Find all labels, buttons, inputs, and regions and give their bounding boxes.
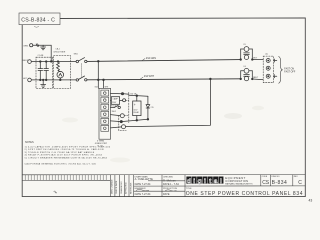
svg-text:2) DPST SWITCH CARLING #2GK54-: 2) DPST SWITCH CARLING #2GK54-73 TOGGLE … — [25, 148, 104, 151]
wire TB1-4 to contact — [111, 115, 121, 116]
svg-text:#14 WHT: #14 WHT — [144, 75, 155, 78]
J1 pin 2 — [266, 66, 270, 70]
junction bottom rail tap — [103, 79, 105, 81]
svg-text:SW1: SW1 — [74, 54, 78, 56]
svg-text:ONE STEP POWER CONTROL PANEL 8: ONE STEP POWER CONTROL PANEL 834 — [186, 191, 303, 197]
switch SW1 mechanical link — [81, 64, 83, 77]
terminal HOT — [28, 78, 32, 82]
svg-text:CODE: CODE — [262, 176, 268, 178]
svg-text:F5: F5 — [244, 44, 246, 46]
svg-text:a: a — [214, 178, 218, 185]
connector contact b — [120, 114, 124, 118]
TB1 pin 4 — [101, 111, 109, 117]
svg-text:CHANGE NO: CHANGE NO — [120, 181, 123, 194]
wire dashed stub b — [124, 115, 128, 117]
svg-text:i: i — [193, 178, 195, 185]
wire #14 GRN top run — [87, 60, 241, 62]
wire NEUT return drop — [126, 79, 211, 127]
wire TB1-5 to node — [111, 120, 120, 123]
junction panel node — [121, 93, 123, 95]
terminal NEUT — [28, 60, 32, 64]
brace FAST ON FAST OFF — [279, 57, 283, 84]
J1 mating contact 1 — [274, 59, 277, 62]
svg-text:PRODUCTION: PRODUCTION — [163, 188, 177, 190]
wire GRN stub — [33, 44, 52, 62]
svg-text:DWG NO: DWG NO — [272, 176, 281, 178]
svg-text:SW-2: SW-2 — [112, 111, 116, 113]
label K1 plus — [134, 103, 136, 107]
wire TB1-6 to contact — [111, 127, 122, 128]
svg-text:NEUT: NEUT — [253, 77, 259, 79]
switch SW2 — [111, 105, 121, 108]
junction relay return — [120, 121, 122, 123]
svg-text:+: + — [134, 103, 136, 107]
svg-text:REVISIONS: REVISIONS — [130, 182, 132, 194]
relay K1 — [133, 101, 141, 116]
svg-text:4) RELAY P+B KRP11AG 115V 6: 4) RELAY P+B KRP11AG 115V 60CY PURCH SPE… — [25, 154, 103, 157]
svg-text:A. OUELLETTE: A. OUELLETTE — [135, 177, 154, 181]
svg-text:CS: CS — [262, 180, 270, 186]
label #14 GRN — [143, 59, 146, 61]
junction top rail tap — [97, 60, 99, 62]
svg-text:#14 GRN: #14 GRN — [146, 57, 156, 60]
svg-text:CIRCUIT BKR: CIRCUIT BKR — [53, 51, 66, 53]
junction drop crossing — [98, 79, 100, 81]
svg-text:C: C — [298, 180, 302, 186]
wire HOT to J1 — [252, 59, 263, 61]
label FAST ON FAST OFF — [284, 67, 296, 73]
svg-text:MAYNARD, MASSACHUSETTS: MAYNARD, MASSACHUSETTS — [225, 183, 253, 186]
svg-text:DWG CHANGE: DWG CHANGE — [111, 179, 114, 194]
wire bottom rail — [31, 79, 76, 81]
svg-text:CB-1: CB-1 — [56, 48, 60, 50]
line filter FL1 enclosure — [36, 57, 52, 88]
J1 pin 1 — [266, 59, 270, 63]
fuse indicator F5 upper — [240, 47, 253, 61]
J1 pin 3 — [266, 74, 270, 78]
svg-text:g: g — [198, 178, 202, 185]
terminal strip TB1 body — [99, 88, 111, 139]
fuse indicator F4 lower — [240, 68, 253, 80]
wire NEUT to J1 — [252, 78, 263, 81]
label CB1 — [53, 48, 66, 53]
svg-text:F4: F4 — [244, 66, 246, 68]
svg-text:GRN: GRN — [23, 45, 28, 47]
svg-text:CORPORATION: CORPORATION — [225, 179, 248, 183]
diode D1 — [146, 96, 150, 119]
notes text block (document) — [25, 141, 111, 165]
svg-text:DATE 7-27-64: DATE 7-27-64 — [135, 193, 151, 196]
junction relay coil top — [136, 95, 138, 101]
wire relay return — [121, 118, 148, 121]
svg-text:RELAY: RELAY — [134, 111, 140, 114]
TB1 pin 2 — [101, 97, 109, 103]
capacitor C1 — [38, 61, 43, 81]
svg-text:5) CIRCUIT BREAKER HEINEMANN C: 5) CIRCUIT BREAKER HEINEMANN CURTIS 6A 2… — [25, 157, 108, 160]
svg-text:FAST OFF: FAST OFF — [284, 71, 296, 74]
wire relay coil bottom — [136, 116, 138, 122]
svg-text:R. Melecn: R. Melecn — [163, 178, 176, 182]
label #14 WHT — [141, 77, 144, 79]
svg-text:APPROVED: APPROVED — [125, 182, 128, 194]
wire relay top feed — [124, 94, 148, 96]
svg-text:CS-B-834 - C: CS-B-834 - C — [21, 18, 55, 24]
label F1 value — [111, 98, 119, 108]
connector J1 enclosure — [263, 56, 273, 83]
svg-text:DATE 1 - 7-64: DATE 1 - 7-64 — [163, 183, 179, 186]
breaker contact CB1 — [57, 71, 64, 80]
svg-text:NOTES: NOTES — [25, 141, 34, 144]
wire dashed stub a — [126, 99, 129, 101]
svg-text:CALIFORNIA GENERAL ELECTRIC #: CALIFORNIA GENERAL ELECTRIC #6CR5 ALL 64… — [25, 162, 97, 165]
label TB1 — [95, 141, 108, 148]
svg-text:#15: #15 — [150, 107, 153, 109]
fuse F1 — [111, 97, 123, 105]
TB1 pin 6 — [101, 125, 109, 131]
TB1 pin 5 — [101, 118, 109, 124]
svg-text:i: i — [204, 178, 206, 185]
svg-text:CO-3B: CO-3B — [38, 55, 45, 57]
label K1 value — [134, 109, 140, 114]
svg-text:DATE 7-27-64: DATE 7-27-64 — [135, 183, 151, 186]
svg-text:B-834: B-834 — [272, 180, 288, 186]
svg-text:NEUT: NEUT — [23, 60, 29, 62]
wire drop to TB1 pin2 — [103, 80, 105, 88]
connector contact a — [123, 99, 126, 102]
panel boundary dashed — [119, 116, 126, 131]
svg-text:CHECK DATE: CHECK DATE — [115, 180, 118, 194]
TB1 pin 3 — [101, 104, 109, 110]
svg-text:FAST ON: FAST ON — [284, 67, 294, 70]
svg-text:#6-141: #6-141 — [97, 146, 103, 148]
T.B. boundary dashed — [128, 92, 130, 122]
switch SW1 pole B — [76, 76, 87, 81]
wire TB1-1 to panel — [111, 92, 122, 94]
svg-text:43: 43 — [309, 199, 313, 203]
breaker coil — [57, 61, 61, 72]
wire drop to TB1 pin1 — [97, 61, 99, 88]
svg-text:1 AMP: 1 AMP — [113, 98, 119, 101]
wire top rail — [31, 60, 76, 62]
terminal GRN — [30, 44, 33, 47]
capacitor C2 — [44, 61, 49, 81]
switch SW1 pole A — [76, 58, 87, 63]
circuit breaker CB1 enclosure — [54, 55, 71, 88]
svg-text:3) TOGGLE SWITCH C-H 7500K: 3) TOGGLE SWITCH C-H 7500K 6A-125V BAT H… — [25, 151, 95, 154]
svg-text:l: l — [220, 178, 222, 185]
earth ground — [41, 45, 46, 50]
connector contact c — [122, 125, 126, 129]
wire #14 WHT bottom run — [87, 78, 241, 81]
svg-text:DATE: DATE — [163, 193, 170, 196]
TB1 pin 1 — [101, 90, 109, 96]
svg-text:TITLE: TITLE — [186, 188, 192, 190]
ground filter common — [41, 79, 46, 87]
junction NEUT return tap — [210, 78, 212, 80]
document furniture: frame, title strip, title block (unlabeled) — [19, 13, 305, 197]
svg-text:d: d — [187, 178, 191, 185]
J1 mating contact 3 — [274, 75, 277, 78]
